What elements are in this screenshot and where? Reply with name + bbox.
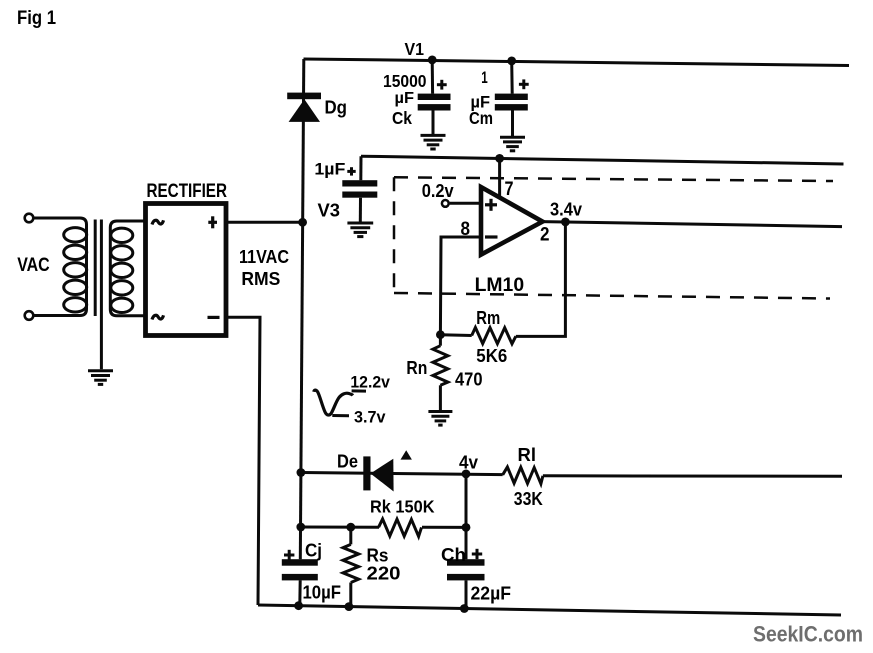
svg-text:V3: V3 [318, 200, 341, 221]
svg-text:470: 470 [455, 369, 483, 390]
svg-text:10µF: 10µF [303, 583, 342, 603]
svg-text:3.4v: 3.4v [550, 199, 583, 220]
svg-text:0.2v: 0.2v [422, 180, 455, 201]
svg-text:5K6: 5K6 [476, 345, 507, 366]
svg-text:Dg: Dg [325, 98, 348, 118]
svg-text:Ck: Ck [392, 108, 412, 128]
svg-text:33K: 33K [514, 488, 544, 509]
svg-text:2: 2 [540, 225, 550, 246]
svg-text:RECTIFIER: RECTIFIER [147, 180, 228, 202]
svg-text:1: 1 [481, 69, 488, 87]
svg-text:4v: 4v [459, 452, 479, 473]
svg-text:SeekIC.com: SeekIC.com [753, 622, 863, 647]
svg-text:Rl: Rl [518, 444, 537, 465]
svg-text:RMS: RMS [241, 268, 280, 289]
svg-text:15000: 15000 [383, 71, 427, 91]
svg-text:Cm: Cm [469, 108, 493, 128]
svg-text:1µF: 1µF [314, 160, 345, 179]
svg-text:22µF: 22µF [471, 584, 512, 604]
svg-text:Rk 150K: Rk 150K [370, 497, 435, 517]
svg-text:8: 8 [461, 219, 471, 240]
svg-text:7: 7 [505, 179, 514, 200]
svg-text:µF: µF [395, 90, 415, 107]
svg-text:220: 220 [367, 563, 401, 584]
svg-text:3.7v: 3.7v [354, 408, 386, 427]
svg-text:Rn: Rn [406, 357, 427, 378]
svg-text:VAC: VAC [17, 254, 50, 276]
svg-text:12.2v: 12.2v [350, 373, 390, 392]
svg-text:Cj: Cj [305, 540, 322, 561]
svg-text:Fig 1: Fig 1 [17, 7, 56, 29]
svg-text:11VAC: 11VAC [239, 246, 289, 267]
svg-text:V1: V1 [405, 39, 425, 59]
svg-text:Rm: Rm [476, 307, 500, 328]
svg-text:De: De [337, 451, 358, 472]
svg-text:LM10: LM10 [475, 275, 524, 296]
svg-text:Ch: Ch [441, 544, 466, 565]
